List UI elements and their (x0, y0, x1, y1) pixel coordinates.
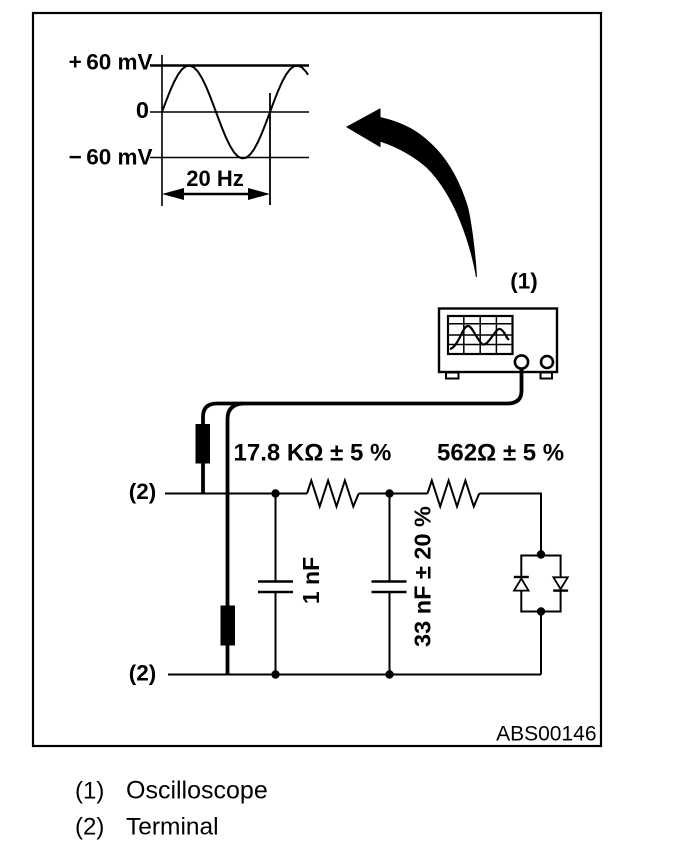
oscilloscope knob/terminal 1 (515, 355, 528, 368)
value label 17.8 Kohm +/- 5 % (234, 440, 392, 467)
svg-text:− 60 mV: − 60 mV (69, 145, 153, 170)
svg-text:(1): (1) (75, 778, 104, 805)
wire from diode bottom node to bottom rail (540, 612, 542, 675)
curved arrow from oscilloscope to waveform (347, 109, 477, 277)
svg-text:562Ω ± 5 %: 562Ω ± 5 % (437, 440, 564, 467)
svg-text:17.8 KΩ ± 5 %: 17.8 KΩ ± 5 % (234, 440, 392, 467)
label 0 (136, 97, 149, 123)
svg-text:1 nF: 1 nF (298, 557, 324, 604)
svg-text:33 nF ± 20 %: 33 nF ± 20 % (410, 506, 436, 647)
0 gridline (150, 111, 309, 113)
probe connector bar on cable B (221, 606, 236, 646)
value label 1 nF (rotated) (298, 557, 324, 604)
label (2) top terminal (129, 479, 157, 504)
label (1) callout (510, 269, 538, 294)
svg-text:(2): (2) (129, 479, 157, 504)
top rail wire right segment and corner down to diode node (479, 494, 541, 555)
diode pair top node dot (537, 550, 545, 558)
waveform graph vertical axis (161, 55, 163, 206)
bottom rail wire (168, 674, 541, 676)
svg-text:(2): (2) (129, 661, 157, 686)
oscilloscope screen trace (450, 326, 509, 349)
label (2) bottom terminal (129, 661, 157, 686)
svg-text:Oscilloscope: Oscilloscope (126, 777, 268, 805)
svg-text:20 Hz: 20 Hz (186, 166, 243, 191)
resistor R1 17.8 Kohm zigzag (307, 481, 359, 507)
svg-text:(1): (1) (510, 269, 538, 294)
legend item 2: Terminal (75, 814, 219, 841)
junction dot bottom rail at C1 (271, 670, 279, 678)
oscilloscope left foot (446, 373, 459, 379)
svg-text:Terminal: Terminal (126, 814, 219, 841)
oscilloscope screen (448, 316, 513, 354)
resistor R2 562 ohm zigzag (428, 481, 480, 507)
capacitor C1 1 nF (258, 494, 293, 675)
svg-text:0: 0 (136, 97, 149, 123)
value label 33 nF +/- 20 % (rotated) (410, 506, 436, 647)
junction dot top rail at C2 (385, 489, 393, 497)
value label 562 ohm +/- 5 % (437, 440, 564, 467)
probe cable A from oscilloscope to top terminal (203, 368, 522, 493)
label -60 mV (69, 145, 153, 170)
top rail wire between R1 and R2 (359, 493, 428, 495)
oscilloscope right foot (541, 373, 553, 379)
oscilloscope knob/terminal 2 (541, 356, 553, 368)
svg-text:+ 60 mV: + 60 mV (69, 50, 153, 75)
waveform graph right vertical line (269, 93, 271, 205)
diode D2 (right, pointing down) (553, 577, 568, 590)
legend item 1: Oscilloscope (75, 777, 268, 805)
diode pair frame wires (521, 556, 560, 612)
sine waveform trace (162, 66, 308, 159)
diode D1 (left, pointing up) (514, 577, 529, 591)
probe cable B to bottom terminal (228, 404, 244, 675)
label 20 Hz (186, 166, 243, 191)
-60 mV gridline (150, 157, 309, 159)
oscilloscope U1 body (439, 309, 557, 373)
svg-text:ABS00146: ABS00146 (496, 723, 596, 746)
junction dot top rail at C1 (271, 489, 279, 497)
junction dot bottom rail at C2 (385, 670, 393, 678)
label +60 mV (69, 50, 153, 75)
border frame of figure (33, 13, 601, 746)
capacitor C2 33 nF (372, 494, 407, 675)
top rail wire left segment (165, 493, 307, 495)
+60 mV gridline (150, 64, 309, 66)
diode pair bottom node dot (537, 607, 545, 615)
svg-text:(2): (2) (75, 814, 104, 841)
20 Hz dimension double arrow (162, 188, 270, 200)
probe connector bar on cable A (196, 424, 211, 464)
figure code ABS00146 (496, 723, 596, 746)
